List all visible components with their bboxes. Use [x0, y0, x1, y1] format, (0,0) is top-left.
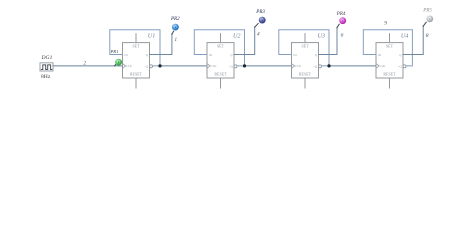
svg-text:U1: U1: [148, 32, 156, 39]
svg-text:RESET: RESET: [383, 72, 396, 77]
junction U1 out: [158, 64, 161, 67]
svg-text:8: 8: [426, 33, 429, 39]
wire U3 feedback loop ~Q to D: [279, 30, 329, 66]
svg-text:2: 2: [84, 60, 87, 66]
svg-text:8Hz: 8Hz: [41, 74, 51, 80]
svg-text:RESET: RESET: [130, 72, 143, 77]
probe PR5: [423, 16, 433, 27]
U1 RESET stub: [135, 78, 137, 88]
wire U2 Q to probe PR3: [234, 27, 255, 55]
junction U3 out: [327, 64, 330, 67]
svg-text:U2: U2: [233, 32, 241, 39]
svg-text:SET: SET: [132, 44, 140, 49]
U1 SET stub: [135, 34, 137, 43]
U3 SET stub: [304, 34, 306, 43]
svg-text:DG1: DG1: [41, 55, 53, 61]
junction U2 out: [243, 64, 246, 67]
U2 RESET stub: [220, 78, 222, 88]
svg-text:PR1: PR1: [110, 49, 119, 54]
flip-flop U4 body: [376, 43, 403, 78]
U2 ~Q bubble: [234, 65, 237, 68]
svg-text:4: 4: [257, 31, 260, 38]
svg-text:CLK: CLK: [295, 64, 302, 68]
probe PR2: [172, 24, 179, 35]
U4 ~Q bubble: [403, 65, 406, 68]
svg-text:U4: U4: [401, 32, 409, 39]
wire U3 ~Q to U4 CLK: [329, 65, 376, 67]
U3 ~Q bubble: [319, 65, 322, 68]
probe PR4: [337, 17, 346, 27]
wire U2 feedback loop ~Q to D: [194, 30, 244, 66]
wire clock net from DG1 to U1 CLK: [53, 65, 123, 67]
svg-text:PR5: PR5: [422, 8, 432, 13]
svg-text:1: 1: [174, 37, 177, 43]
svg-text:PR3: PR3: [255, 10, 265, 15]
svg-text:RESET: RESET: [214, 72, 227, 77]
wire U1 Q to probe PR2: [150, 34, 172, 55]
clock source DG1: [40, 63, 53, 71]
svg-text:9: 9: [384, 21, 387, 27]
wire U3 Q to probe PR4: [319, 27, 338, 54]
svg-text:PR2: PR2: [170, 17, 180, 22]
svg-text:SET: SET: [386, 44, 394, 49]
svg-text:SET: SET: [217, 44, 225, 49]
svg-text:CLK: CLK: [211, 64, 218, 68]
probe PR1: [115, 59, 123, 66]
wire U4 Q to probe PR5: [403, 26, 423, 55]
svg-text:SET: SET: [301, 44, 309, 49]
svg-text:CLK: CLK: [380, 64, 387, 68]
U4 SET stub: [389, 34, 391, 43]
wire U4 feedback loop ~Q to D: [363, 30, 412, 66]
flip-flop U3 body: [292, 43, 319, 78]
probe PR3: [255, 17, 266, 28]
svg-text:RESET: RESET: [299, 72, 312, 77]
svg-text:PR4: PR4: [336, 12, 346, 17]
flip-flop U2 body: [207, 43, 234, 78]
U2 SET stub: [220, 34, 222, 43]
wire U1 ~Q to U2 CLK: [160, 65, 207, 67]
wire U2 ~Q to U3 CLK: [245, 65, 292, 67]
U3 RESET stub: [304, 78, 306, 88]
U1 ~Q bubble: [150, 65, 153, 68]
svg-text:6: 6: [341, 33, 344, 39]
svg-text:U3: U3: [317, 32, 325, 39]
U4 RESET stub: [389, 78, 391, 88]
wire U1 feedback loop ~Q to D: [110, 30, 160, 66]
flip-flop U1 body: [123, 43, 150, 78]
svg-text:CLK: CLK: [126, 64, 133, 68]
